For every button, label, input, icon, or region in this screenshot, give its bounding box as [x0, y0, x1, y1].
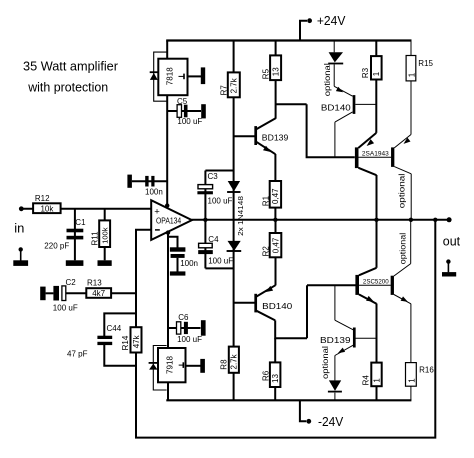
svg-text:BD140: BD140 — [321, 103, 351, 113]
svg-text:BD139: BD139 — [320, 335, 351, 345]
svg-text:2x 1N4148: 2x 1N4148 — [236, 196, 245, 236]
svg-text:R16: R16 — [419, 366, 434, 375]
svg-text:C1: C1 — [75, 218, 86, 227]
svg-text:7818: 7818 — [166, 67, 175, 86]
svg-text:R13: R13 — [87, 278, 102, 287]
svg-text:100 uF: 100 uF — [177, 335, 202, 344]
svg-text:-24V: -24V — [318, 415, 344, 429]
svg-text:R11: R11 — [90, 231, 99, 246]
svg-text:100k: 100k — [101, 227, 110, 244]
svg-text:in: in — [14, 221, 24, 236]
svg-text:7918: 7918 — [166, 355, 175, 374]
svg-text:OPA134: OPA134 — [156, 217, 182, 226]
svg-text:10k: 10k — [40, 205, 54, 214]
svg-text:optional: optional — [397, 173, 407, 208]
svg-text:1: 1 — [407, 72, 416, 77]
svg-text:R12: R12 — [35, 194, 50, 203]
svg-text:100 uF: 100 uF — [208, 197, 233, 206]
svg-text:47 pF: 47 pF — [67, 350, 88, 359]
svg-text:13: 13 — [271, 67, 280, 76]
svg-text:100n: 100n — [145, 187, 163, 196]
svg-text:+: + — [154, 206, 160, 217]
svg-text:R1: R1 — [262, 195, 271, 206]
svg-text:R6: R6 — [261, 370, 270, 381]
svg-text:220 pF: 220 pF — [44, 241, 69, 250]
svg-text:C2: C2 — [66, 278, 77, 287]
svg-text:+24V: +24V — [317, 14, 346, 28]
svg-text:C3: C3 — [208, 172, 219, 181]
svg-text:0,47: 0,47 — [271, 188, 280, 204]
svg-text:0,47: 0,47 — [271, 237, 280, 253]
svg-text:35 Watt amplifier: 35 Watt amplifier — [23, 60, 118, 74]
svg-text:R15: R15 — [418, 59, 433, 68]
svg-text:optional: optional — [320, 346, 330, 379]
svg-text:BD140: BD140 — [262, 301, 292, 311]
svg-text:R2: R2 — [261, 246, 270, 257]
svg-text:optional: optional — [322, 63, 332, 96]
svg-text:2.7k: 2.7k — [230, 77, 239, 93]
svg-text:2SC5200: 2SC5200 — [363, 279, 389, 286]
svg-text:47k: 47k — [132, 334, 141, 348]
svg-text:BD139: BD139 — [262, 133, 289, 143]
svg-text:R7: R7 — [219, 85, 228, 96]
svg-text:2.7k: 2.7k — [230, 353, 239, 369]
svg-text:R8: R8 — [219, 359, 228, 370]
svg-text:100 uF: 100 uF — [177, 117, 202, 126]
svg-text:R14: R14 — [121, 335, 130, 350]
svg-text:2SA1943: 2SA1943 — [362, 151, 389, 158]
svg-text:optional: optional — [398, 233, 408, 265]
svg-text:R5: R5 — [261, 68, 270, 79]
svg-text:4k7: 4k7 — [92, 289, 105, 298]
svg-text:13: 13 — [271, 374, 280, 383]
svg-text:1: 1 — [372, 71, 381, 76]
svg-text:C44: C44 — [107, 324, 122, 333]
svg-text:with protection: with protection — [27, 80, 108, 94]
svg-text:1: 1 — [407, 378, 416, 383]
svg-text:out: out — [443, 233, 461, 248]
svg-text:C4: C4 — [208, 235, 219, 244]
svg-text:100n: 100n — [180, 259, 198, 268]
svg-text:100 uF: 100 uF — [53, 303, 78, 312]
svg-text:1: 1 — [372, 378, 381, 383]
svg-text:C6: C6 — [178, 313, 189, 322]
svg-text:C5: C5 — [177, 97, 188, 106]
svg-text:100 uF: 100 uF — [208, 257, 233, 266]
svg-text:R4: R4 — [362, 375, 371, 386]
svg-text:R3: R3 — [361, 67, 370, 78]
